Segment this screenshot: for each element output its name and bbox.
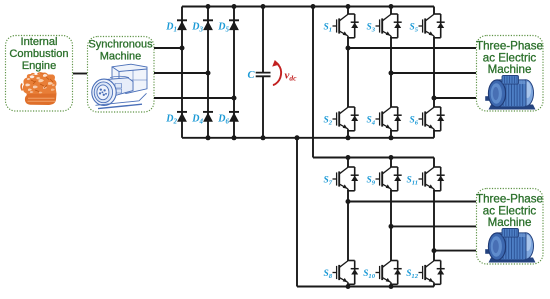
wire phase a inverter1 to machine1	[348, 47, 476, 49]
capacitor C leg top	[262, 7, 264, 73]
IGBT S1	[333, 14, 359, 38]
wire rectifier leg 3	[233, 7, 235, 138]
IGBT S7	[333, 167, 359, 191]
capacitor C leg bottom	[262, 77, 264, 138]
wire inverter1 leg c	[433, 7, 435, 138]
junction phase a / inverter2 leg	[346, 199, 351, 204]
wire phase b generator to rectifier	[154, 72, 208, 74]
junction top rail / positive bus tap	[311, 4, 316, 9]
IGBT S2	[333, 107, 359, 131]
junction bottom rail / negative bus tap	[295, 135, 300, 140]
junction inverter2 bottom rail / S8 leg	[346, 284, 351, 289]
junction top rail / S1 leg	[346, 4, 351, 9]
IGBT S11	[419, 167, 445, 191]
junction bottom rail / capacitor	[261, 135, 266, 140]
junction inverter2 bottom rail / S10 leg	[389, 284, 394, 289]
icon motor bottom	[485, 229, 535, 263]
wire negative bus down to inverter 2	[297, 138, 434, 287]
box Synchronous Machine	[88, 37, 155, 113]
IGBT S8	[333, 261, 359, 285]
diode D3	[203, 20, 213, 30]
box Three-Phase ac Electric Machine top	[476, 36, 543, 112]
svg-text:Machine: Machine	[488, 63, 532, 76]
diode D6	[229, 112, 239, 122]
IGBT S12	[419, 261, 445, 285]
junction bottom rail / S4 leg	[389, 135, 394, 140]
wire dc top rail	[182, 6, 434, 8]
diode D4	[203, 112, 213, 122]
junction bottom rail / S2 leg	[346, 135, 351, 140]
IGBT S10	[376, 261, 402, 285]
svg-text:Combustion: Combustion	[9, 48, 68, 60]
junction phase a / inverter1 leg	[346, 46, 351, 51]
wire phase a inverter2 to machine2	[348, 201, 476, 203]
wire rectifier leg 1	[181, 7, 183, 138]
wire phase a generator to rectifier	[154, 47, 182, 49]
junction phase a / rectifier leg 1	[180, 46, 185, 51]
wire inverter2 leg a	[347, 158, 349, 287]
svg-text:Machine: Machine	[100, 51, 142, 63]
wire phase c inverter1 to machine1	[434, 97, 476, 99]
capacitor C plates	[256, 73, 271, 77]
junction top rail / capacitor	[261, 4, 266, 9]
diode D2	[177, 112, 187, 122]
junction bottom rail / rectifier leg 2	[206, 135, 211, 140]
wire phase c inverter2 to machine2	[434, 250, 476, 252]
IGBT S9	[376, 167, 402, 191]
junction bottom rail / rectifier leg 3	[232, 135, 237, 140]
junction inverter2 top rail / S9 leg	[389, 155, 394, 160]
junction phase c / inverter1 leg	[432, 96, 437, 101]
wire shaft ICE to generator	[73, 73, 87, 75]
icon synchronous generator (light blue)	[92, 64, 147, 108]
svg-text:Engine: Engine	[22, 60, 57, 72]
wire dc bottom rail	[182, 137, 434, 139]
svg-text:Synchronous: Synchronous	[88, 38, 153, 50]
diode D5	[229, 20, 239, 30]
junction top rail / S3 leg	[389, 4, 394, 9]
wire inverter1 leg a	[347, 7, 349, 138]
IGBT S4	[376, 107, 402, 131]
box Internal Combustion Engine	[6, 36, 73, 112]
junction phase b / inverter1 leg	[389, 71, 394, 76]
junction top rail / rectifier leg 2	[206, 4, 211, 9]
junction phase b / inverter2 leg	[389, 224, 394, 229]
wire inverter1 leg b	[390, 7, 392, 138]
icon motor top	[485, 76, 535, 110]
wire inverter2 leg b	[390, 158, 392, 287]
wire phase c generator to rectifier	[154, 97, 234, 99]
wire inverter2 leg c	[433, 158, 435, 287]
wire positive bus down to inverter 2	[313, 7, 434, 158]
junction top rail / rectifier leg 3	[232, 4, 237, 9]
svg-text:Machine: Machine	[488, 216, 532, 229]
icon engine (orange)	[21, 73, 56, 106]
IGBT S3	[376, 14, 402, 38]
svg-text:C: C	[247, 70, 255, 81]
IGBT S6	[419, 107, 445, 131]
vdc red arrow	[273, 63, 281, 85]
IGBT S5	[419, 14, 445, 38]
svg-text:Three-Phase: Three-Phase	[476, 39, 543, 52]
wire rectifier leg 2	[207, 7, 209, 138]
diode D1	[177, 20, 187, 30]
box Three-Phase ac Electric Machine bottom	[476, 189, 543, 265]
svg-text:Three-Phase: Three-Phase	[476, 192, 543, 205]
svg-text:Internal: Internal	[20, 36, 57, 48]
junction inverter2 top rail / S7 leg	[346, 155, 351, 160]
junction phase b / rectifier leg 2	[206, 71, 211, 76]
wire phase b inverter2 to machine2	[391, 225, 476, 227]
junction phase c / rectifier leg 3	[232, 96, 237, 101]
wire phase b inverter1 to machine1	[391, 72, 476, 74]
junction phase c / inverter2 leg	[432, 248, 437, 253]
